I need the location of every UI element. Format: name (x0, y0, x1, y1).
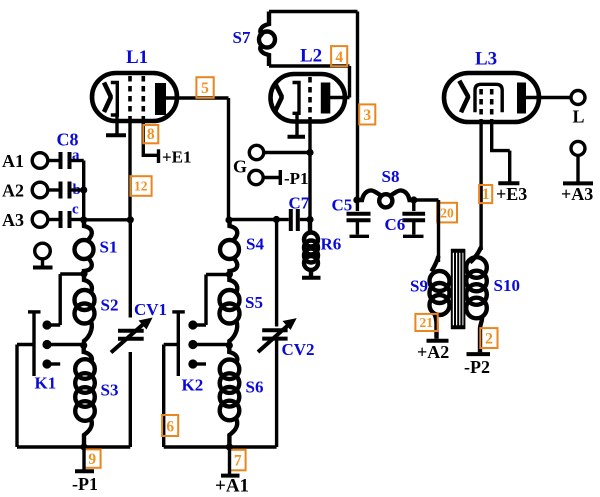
node 7 (230, 450, 246, 471)
terminal bar +E1 (157, 149, 160, 163)
svg-text:CV1: CV1 (134, 300, 167, 319)
svg-text:2: 2 (485, 330, 493, 347)
grid terminal circle (249, 145, 263, 159)
wire L1 grid2 to +E1 (143, 119, 157, 155)
L1 grid 1 (dashed) (128, 76, 132, 119)
ground bar C6 (403, 235, 424, 238)
left rail wire (15, 345, 18, 448)
wire L3 anode to L terminal (526, 96, 571, 99)
coil S7 (260, 12, 269, 37)
svg-text:C7: C7 (289, 194, 310, 213)
K1 contact 2 (42, 340, 51, 349)
wire L1 grid1 down (128, 119, 131, 220)
winding S9 (432, 256, 439, 272)
svg-text:9: 9 (88, 451, 96, 468)
svg-text:1: 1 (482, 186, 490, 203)
svg-text:S4: S4 (246, 235, 264, 254)
coil S2 (84, 274, 92, 292)
svg-text:C8: C8 (57, 130, 79, 150)
svg-text:+A1: +A1 (215, 476, 249, 497)
capacitor C8a (61, 152, 70, 169)
node 2 (480, 328, 497, 348)
svg-text:-P1: -P1 (72, 474, 98, 494)
svg-text:L2: L2 (300, 46, 322, 67)
K2 contact 3 (188, 359, 197, 368)
switch K2 wiper bar (177, 312, 180, 376)
wire node 5 down to S4 (227, 98, 230, 221)
svg-text:K1: K1 (35, 374, 57, 393)
middle left rail wire (162, 345, 165, 448)
wire C8c to node junction (72, 218, 84, 221)
terminal circle L (571, 91, 585, 105)
wire to -P1 terminal (82, 447, 85, 471)
terminal bar -P2 (467, 352, 491, 356)
tube L3 envelope (444, 73, 539, 122)
wire A2 to C8b (48, 188, 59, 191)
switch K1 wiper bar (32, 312, 35, 376)
L3 grid 2 (dashed) (490, 89, 494, 119)
svg-text:S6: S6 (246, 378, 264, 397)
L1 filament heater (104, 83, 111, 113)
wire K2 to left rail (164, 343, 179, 346)
svg-text:S5: S5 (245, 293, 263, 312)
coil S5 (229, 275, 237, 293)
wire node5 junction to C7 (229, 218, 277, 221)
capacitor C8c (61, 211, 70, 228)
coil S8 (357, 190, 381, 200)
L1 anode plate (155, 83, 166, 115)
wire C6 junction to node 20 (414, 198, 439, 201)
junction dot C5 top (353, 196, 360, 203)
ground bar C5 (350, 235, 370, 238)
svg-text:L3: L3 (475, 49, 497, 70)
L2 grid (dashed) (308, 77, 312, 119)
K1 contact 1 (42, 320, 51, 329)
wire grid terminal (264, 151, 310, 154)
tube L2 envelope (271, 74, 346, 122)
terminal circle +A3 (571, 141, 585, 155)
wire S7 to node 4 corner (269, 66, 350, 98)
ground bar for L1 cathode (106, 133, 126, 137)
svg-text:-P2: -P2 (464, 357, 490, 377)
wire to -P1 bar (263, 176, 280, 179)
ground bar L2 cathode (288, 135, 306, 139)
junction dot c row (80, 216, 87, 223)
K2 contact 2 (188, 340, 197, 349)
tube L1 envelope (92, 73, 177, 121)
svg-text:R6: R6 (321, 235, 342, 254)
K1 contact 3 (42, 359, 51, 368)
junction dot bottom S6 (226, 443, 233, 450)
node 12 (130, 176, 151, 196)
wire A1 to C8a (48, 159, 59, 162)
wire to +A1 terminal (228, 447, 231, 476)
L3 filament heater (459, 81, 468, 113)
L2 cathode lead (295, 112, 298, 137)
svg-text:-P1: -P1 (284, 169, 309, 188)
wire L2 grid down (308, 119, 311, 220)
svg-text:S7: S7 (233, 28, 251, 47)
svg-text:5: 5 (201, 80, 209, 97)
L3 grid 1 (dashed) (479, 89, 483, 119)
svg-text:S3: S3 (101, 381, 119, 400)
wire L3 grid2 to +E3 (492, 119, 510, 183)
winding S10 (470, 247, 481, 263)
wire c row to grid line (84, 218, 131, 221)
junction dot below S1 (80, 270, 87, 277)
terminal bar -P1 (75, 469, 94, 473)
svg-text:+A2: +A2 (417, 342, 449, 362)
svg-text:L: L (573, 107, 585, 127)
L2 anode plate (321, 83, 331, 114)
node 9 (84, 449, 100, 467)
svg-text:K2: K2 (182, 376, 204, 395)
node 4 (331, 46, 347, 66)
junction dot C7 left (273, 216, 280, 223)
coil S4 (230, 220, 238, 240)
coil S1 (84, 220, 92, 240)
junction dot grid wire (306, 149, 313, 156)
wire K1 to left rail (17, 343, 34, 346)
variable capacitor CV2 (275, 220, 278, 327)
node 21 (415, 314, 437, 331)
capacitor C8b (61, 182, 70, 199)
terminal circle -P1 (249, 170, 263, 184)
variable capacitor CV1 (129, 220, 132, 318)
node 20 (437, 203, 457, 223)
svg-text:CV2: CV2 (282, 340, 315, 359)
svg-text:S1: S1 (100, 238, 118, 257)
svg-text:+E3: +E3 (496, 184, 527, 204)
svg-text:C5: C5 (332, 196, 353, 215)
svg-text:C6: C6 (385, 215, 406, 234)
wire C8b to common line (72, 188, 84, 191)
terminal bar +A1 (221, 474, 240, 478)
L2 cathode (293, 83, 300, 114)
wire A3 to C8c (48, 218, 59, 221)
capacitor C6 (412, 200, 415, 211)
svg-text:20: 20 (440, 206, 454, 221)
resistor R6 (308, 220, 312, 234)
junction dot S2/S3 (80, 342, 87, 349)
L1 cathode lead wire (115, 113, 118, 135)
svg-text:21: 21 (419, 315, 433, 330)
svg-text:A3: A3 (2, 210, 24, 230)
node 5 (196, 77, 213, 98)
wire L3 grid1 down to S10 (479, 119, 482, 250)
terminal bar +E3 (498, 181, 519, 185)
transformer core (451, 251, 465, 328)
node 1 (479, 185, 492, 203)
junction dot C7 right (306, 216, 313, 223)
junction dot b row (80, 186, 87, 193)
terminal bar +A2 (427, 339, 449, 343)
junction dot S5/S6 (226, 342, 233, 349)
earth terminal bar (33, 266, 53, 270)
junction dot grid line (127, 216, 134, 223)
svg-text:L1: L1 (126, 47, 148, 68)
capacitor C7 (291, 209, 298, 231)
svg-text:S2: S2 (101, 296, 119, 315)
junction dot chain top (225, 216, 232, 223)
svg-text:+E1: +E1 (162, 148, 192, 167)
wire node 20 down to S9 (437, 200, 440, 262)
svg-text:12: 12 (134, 179, 148, 194)
svg-text:c: c (72, 202, 79, 218)
svg-text:3: 3 (363, 107, 371, 124)
L1 grid 2 (dashed) (142, 76, 146, 119)
node 8 (143, 125, 158, 143)
C8 common vertical wire (82, 161, 85, 221)
svg-text:7: 7 (234, 452, 242, 469)
bottom rail wire left block (17, 445, 130, 448)
terminal bar -P1 (279, 170, 282, 185)
top wire S7 loop (269, 10, 358, 13)
capacitor C5 (356, 200, 359, 211)
svg-text:4: 4 (335, 49, 343, 66)
wire L2 anode to node 4 (330, 96, 350, 99)
wire C7 right (300, 218, 310, 221)
svg-text:S9: S9 (410, 277, 428, 296)
terminal bar +A3 (563, 181, 593, 185)
svg-text:A1: A1 (2, 151, 24, 171)
wire +A3 (576, 155, 579, 183)
junction dot below S4 (226, 271, 233, 278)
svg-text:S8: S8 (382, 167, 400, 186)
wire C7 left (276, 218, 288, 221)
svg-text:S10: S10 (494, 276, 520, 295)
wire C8a to common line (72, 159, 84, 162)
bottom rail wire middle block (164, 445, 277, 448)
node 3 (359, 104, 375, 124)
coil S3 (84, 346, 92, 363)
svg-text:6: 6 (166, 418, 174, 435)
svg-text:G: G (233, 157, 247, 177)
wire L1 anode to node 5 (166, 96, 229, 99)
junction dot bottom S3 (80, 443, 87, 450)
L3 anode plate (517, 83, 526, 114)
L1 cathode (111, 83, 118, 116)
svg-text:A2: A2 (2, 181, 24, 201)
junction dot C6 top (410, 196, 417, 203)
L2 filament heater (275, 83, 282, 112)
ground bar R6 (302, 276, 321, 280)
coil S6 (229, 346, 237, 363)
earth terminal circle (35, 243, 51, 259)
earth terminal stub (41, 259, 44, 268)
node 6 (162, 415, 178, 436)
svg-text:8: 8 (147, 126, 155, 143)
L3 cathode (475, 84, 502, 112)
right vertical wire node 3 (356, 12, 359, 201)
K2 contact 1 (188, 320, 197, 329)
svg-text:+A3: +A3 (561, 184, 593, 204)
